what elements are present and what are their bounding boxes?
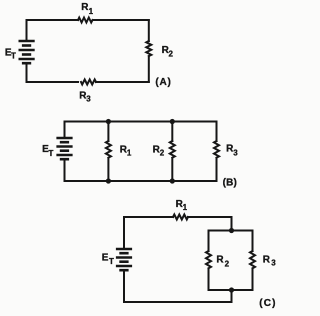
wire: circuit A bottom rail left segment bbox=[27, 81, 79, 83]
wire: circuit B battery branch upper bbox=[64, 122, 66, 139]
resistor R2 (circuit C) bbox=[206, 251, 211, 268]
junction dot: circuit C bottom node of parallel box bbox=[229, 287, 234, 292]
wire: circuit C left rail below battery bbox=[123, 270, 125, 302]
wire: circuit A top rail left segment bbox=[27, 19, 79, 21]
junction dot: circuit B bottom node at R1 branch bbox=[106, 178, 111, 183]
wire: circuit C left rail above battery bbox=[123, 217, 125, 249]
wire: circuit C top rail left segment bbox=[124, 216, 173, 218]
label R3 (circuit B) bbox=[226, 144, 238, 158]
resistor R1 (circuit C, top) bbox=[173, 215, 188, 220]
wire: circuit A right rail lower segment bbox=[148, 57, 150, 82]
wire: circuit A top rail right segment bbox=[93, 19, 149, 21]
resistor R1 (circuit B) bbox=[106, 141, 111, 158]
svg-text:3: 3 bbox=[271, 258, 276, 267]
wire: circuit C parallel box left branch upper bbox=[208, 231, 210, 252]
wire: circuit A bottom rail right segment bbox=[96, 81, 149, 83]
wire: circuit B branch R3 upper bbox=[216, 122, 218, 142]
wire: circuit B branch R2 upper bbox=[171, 122, 173, 142]
wire: circuit C connector from top rail to parallel box bbox=[231, 217, 233, 231]
svg-text:T: T bbox=[109, 257, 114, 266]
resistor R3 (circuit C) bbox=[250, 251, 255, 268]
resistor R2 (circuit B) bbox=[170, 141, 175, 158]
wire: circuit B branch R3 lower bbox=[216, 159, 218, 181]
svg-text:E: E bbox=[102, 253, 109, 264]
wire: circuit B bottom rail bbox=[65, 180, 217, 182]
svg-text:1: 1 bbox=[89, 7, 94, 16]
battery ET (circuit C) bbox=[117, 249, 131, 270]
wire: circuit B top rail bbox=[65, 121, 217, 123]
label R2 (circuit B) bbox=[153, 144, 165, 157]
label ET (circuit C) bbox=[102, 253, 114, 266]
svg-text:(B): (B) bbox=[223, 177, 237, 188]
resistor R3 (circuit A, bottom) bbox=[81, 80, 96, 85]
svg-text:T: T bbox=[49, 149, 54, 158]
svg-text:2: 2 bbox=[225, 259, 230, 268]
label R3 (circuit C) bbox=[263, 254, 277, 267]
svg-text:R: R bbox=[216, 255, 224, 266]
label ET (circuit B) bbox=[42, 144, 53, 158]
resistor R3 (circuit B) bbox=[214, 141, 219, 158]
wire: circuit B branch R1 lower bbox=[107, 159, 109, 181]
wire: circuit B battery branch lower bbox=[64, 159, 66, 181]
wire: circuit A left rail below battery bbox=[26, 63, 28, 82]
label R1 (circuit A) bbox=[81, 2, 93, 16]
battery ET (circuit A) bbox=[20, 41, 34, 63]
svg-text:(C): (C) bbox=[259, 298, 276, 309]
label R3 (circuit A) bbox=[79, 91, 91, 104]
svg-text:2: 2 bbox=[160, 149, 165, 158]
wire: circuit C parallel box right branch lower bbox=[252, 269, 254, 290]
resistor R1 (circuit A, top) bbox=[78, 18, 93, 23]
battery ET (circuit B) bbox=[58, 138, 72, 159]
label R2 (circuit C) bbox=[216, 255, 229, 269]
wire: circuit B branch R2 lower bbox=[171, 159, 173, 181]
wire: circuit C bottom rail bbox=[124, 301, 232, 303]
wire: circuit C parallel box right branch upper bbox=[252, 231, 254, 252]
svg-text:(A): (A) bbox=[155, 77, 171, 88]
svg-text:1: 1 bbox=[127, 149, 132, 158]
label R1 (circuit C) bbox=[176, 199, 188, 212]
svg-text:R: R bbox=[263, 254, 271, 265]
wire: circuit C parallel box bottom rail bbox=[209, 289, 253, 291]
label R1 (circuit B) bbox=[120, 144, 132, 157]
wire: circuit C parallel box left branch lower bbox=[208, 269, 210, 290]
resistor R2 (circuit A, right) bbox=[146, 41, 151, 56]
svg-text:2: 2 bbox=[169, 49, 174, 58]
wire: circuit C top rail right segment bbox=[188, 216, 232, 218]
junction dot: circuit B bottom node at R2 branch bbox=[170, 178, 175, 183]
junction dot: circuit C top node of parallel box bbox=[229, 228, 234, 233]
label ET (circuit A) bbox=[5, 47, 16, 60]
svg-text:3: 3 bbox=[86, 95, 91, 104]
junction dot: circuit B top node at R1 branch bbox=[106, 119, 111, 124]
wire: circuit C connector from parallel box to bottom rail bbox=[231, 290, 233, 302]
wire: circuit A right rail upper segment bbox=[148, 20, 150, 41]
wire: circuit B branch R1 upper bbox=[107, 122, 109, 142]
junction dot: circuit B top node at R2 branch bbox=[170, 119, 175, 124]
svg-text:1: 1 bbox=[183, 203, 188, 212]
wire: circuit C parallel box top rail bbox=[209, 230, 253, 232]
wire: circuit A left rail above battery bbox=[26, 20, 28, 41]
svg-text:3: 3 bbox=[233, 148, 238, 157]
label R2 (circuit A) bbox=[162, 45, 174, 58]
svg-text:T: T bbox=[11, 51, 16, 60]
